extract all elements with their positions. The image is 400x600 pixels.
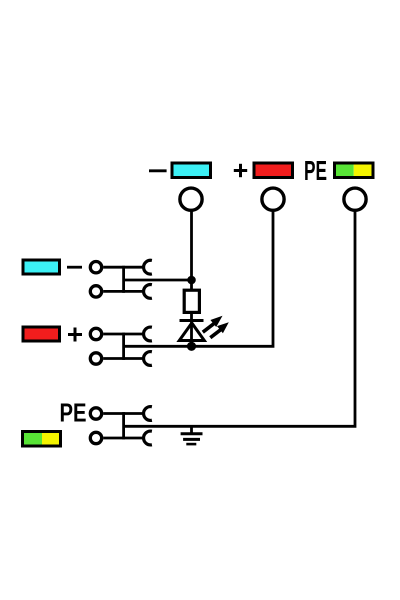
- marking light-blue (top): [172, 163, 211, 178]
- marking green-yellow (top): [334, 163, 374, 179]
- wire from circle3 down and left to PE group: [124, 211, 355, 426]
- label + (left plus): [68, 328, 82, 342]
- busbar PE group: [122, 412, 125, 439]
- clamp circle minus top: [90, 262, 101, 273]
- spring contact minus bottom: [144, 285, 152, 299]
- ground symbol: [181, 427, 203, 444]
- wire from circle1 down to resistor: [190, 211, 193, 291]
- spring contact plus top: [144, 327, 152, 341]
- spring contact plus bottom: [144, 352, 152, 366]
- LED lead wire through triangle: [190, 313, 193, 346]
- clamp circle minus bottom: [90, 286, 101, 297]
- marking red (top): [254, 163, 293, 178]
- LED cathode bar: [180, 319, 204, 322]
- terminal circle 1 (minus): [180, 188, 202, 210]
- svg-text:PE: PE: [304, 155, 327, 186]
- wire PE bottom: [103, 437, 143, 440]
- label + (top, plus): [234, 164, 247, 177]
- resistor R: [184, 290, 199, 312]
- spring contact PE bottom: [144, 431, 152, 445]
- LED emission arrow 1: [203, 316, 223, 332]
- label - (top, minus): [149, 169, 167, 172]
- clamp circle PE top: [90, 408, 101, 419]
- clamp circle plus top: [90, 328, 101, 339]
- wire from circle2 down and left to plus group: [124, 211, 273, 346]
- spring contact minus top: [144, 260, 152, 274]
- wire minus bottom: [103, 290, 143, 293]
- LED triangle: [179, 323, 204, 341]
- wire plus bottom: [103, 357, 143, 360]
- wire minus top: [103, 266, 143, 269]
- clamp circle PE bottom: [90, 432, 101, 443]
- busbar minus group: [122, 266, 125, 293]
- junction dot A: [187, 276, 196, 285]
- wire plus top: [103, 333, 143, 336]
- clamp circle plus bottom: [90, 353, 101, 364]
- LED emission arrow 2: [210, 322, 229, 337]
- terminal circle 3 (PE): [344, 188, 366, 210]
- marking green-yellow (left PE): [22, 431, 61, 447]
- busbar plus group: [122, 333, 125, 360]
- spring contact PE top: [144, 407, 152, 421]
- junction dot B: [187, 342, 196, 351]
- wire PE top: [103, 412, 143, 415]
- svg-text:PE: PE: [60, 400, 87, 428]
- wire middle of minus group to junction A: [124, 279, 192, 282]
- marking red (left plus): [23, 327, 60, 341]
- marking light-blue (left minus): [23, 260, 60, 274]
- label - (left minus): [67, 266, 82, 269]
- terminal circle 2 (plus): [262, 188, 284, 210]
